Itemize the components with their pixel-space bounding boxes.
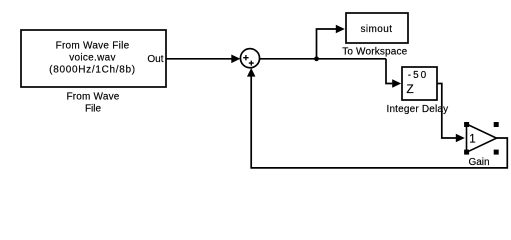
svg-text:Integer Delay: Integer Delay bbox=[386, 104, 448, 115]
selection handle top-left bbox=[464, 122, 469, 127]
svg-text:From Wave File: From Wave File bbox=[56, 41, 130, 52]
svg-text:(8000Hz/1Ch/8b): (8000Hz/1Ch/8b) bbox=[49, 65, 136, 76]
svg-text:simout: simout bbox=[361, 24, 393, 35]
selection handle top-right bbox=[494, 122, 499, 127]
sum block (adder) bbox=[240, 49, 259, 68]
block Integer Delay bbox=[402, 67, 437, 100]
arrowhead into Integer Delay bbox=[392, 79, 401, 88]
arrowhead into Gain bbox=[456, 134, 465, 143]
arrowhead up into Sum bottom bbox=[247, 68, 255, 77]
svg-text:File: File bbox=[85, 104, 102, 115]
svg-text:1: 1 bbox=[469, 133, 475, 145]
arrowhead into Sum left bbox=[231, 55, 240, 64]
selection handle bottom-left bbox=[464, 150, 469, 155]
block Gain (triangle) bbox=[467, 124, 497, 152]
wire down to Integer Delay bbox=[386, 59, 392, 84]
svg-text:Gain: Gain bbox=[468, 157, 489, 168]
svg-text:-50: -50 bbox=[408, 70, 428, 81]
plus sign left input bbox=[243, 55, 248, 60]
wire Integer Delay to Gain bbox=[437, 84, 456, 139]
wire Gain output feedback to Sum bottom bbox=[251, 76, 507, 167]
svg-text:From Wave: From Wave bbox=[66, 91, 119, 102]
svg-text:To Workspace: To Workspace bbox=[342, 46, 407, 57]
block simout (To Workspace) bbox=[346, 13, 408, 43]
svg-text:Z: Z bbox=[406, 82, 413, 96]
wire Sum output to corner bbox=[260, 58, 387, 60]
junction node bbox=[314, 56, 319, 61]
wire From Wave File to Sum bbox=[166, 58, 232, 60]
plus sign bottom input bbox=[249, 61, 254, 66]
block From Wave File bbox=[21, 30, 166, 87]
wire branch up to simout bbox=[317, 29, 337, 59]
arrowhead into simout bbox=[336, 25, 345, 34]
svg-text:voice.wav: voice.wav bbox=[69, 53, 116, 64]
svg-text:Out: Out bbox=[147, 54, 163, 65]
selection handle bottom-right bbox=[494, 150, 499, 155]
